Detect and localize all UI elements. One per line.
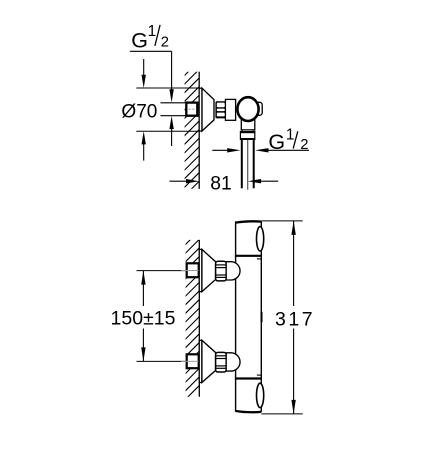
O70 extension line bottom bbox=[136, 130, 199, 132]
union thread bottom connection (front view) bbox=[216, 352, 227, 372]
top cap top edge bbox=[236, 221, 261, 222]
escutcheon cone bottom connection (front view) bbox=[202, 340, 216, 382]
O70 extension line top bbox=[136, 87, 199, 89]
wall hatching (front view) bbox=[178, 222, 208, 407]
outlet pipe down (top view) bbox=[241, 140, 243, 188]
svg-text:81: 81 bbox=[210, 173, 231, 194]
divider below top cap bbox=[235, 255, 262, 257]
threaded wall nipple (top view) bbox=[186, 103, 197, 116]
in-wall fitting square top (front view) bbox=[187, 263, 199, 277]
150 arrow down bbox=[141, 347, 145, 361]
O70 lower arrow (points up) bbox=[143, 143, 145, 161]
81 left arrow (points right at wall face) bbox=[170, 180, 187, 182]
150 dimension line lower part bbox=[142, 329, 144, 362]
wall face line (front view) bbox=[198, 240, 200, 397]
leader vertical for top G1/2 bbox=[171, 51, 173, 91]
centerline in top square bbox=[181, 270, 199, 272]
lower valve body below circle (top view) bbox=[241, 110, 255, 130]
317 arrow up bbox=[291, 221, 295, 235]
arrow down to pipe thread (top G1/2) bbox=[169, 89, 173, 102]
leader underline for right G1/2 with left arrow bbox=[261, 149, 309, 151]
thermostat bar column right edge bbox=[260, 221, 262, 411]
arrow up to pipe thread bottom (top G1/2) bbox=[169, 116, 173, 129]
wall face line (top view) bbox=[198, 72, 200, 189]
O70 upper arrow (points down) bbox=[143, 59, 145, 76]
valve circle (top view) bbox=[237, 97, 258, 121]
svg-text:2: 2 bbox=[161, 35, 169, 51]
bottom cap end ellipse bbox=[257, 383, 264, 407]
centerline in bottom square bbox=[181, 360, 199, 362]
step ring under body (top view) bbox=[242, 130, 253, 132]
tail below up-arrow (top G1/2) bbox=[171, 129, 173, 146]
svg-text:150±15: 150±15 bbox=[111, 308, 176, 330]
317 dimension line lower part bbox=[293, 329, 295, 414]
svg-text:G: G bbox=[131, 28, 148, 52]
outlet nut (top view) bbox=[240, 132, 254, 140]
nipple thread dashes bbox=[189, 108, 196, 110]
escutcheon cone (top view) bbox=[202, 88, 214, 131]
150 dimension extension line top / supply axis bbox=[137, 270, 188, 272]
150 dimension line upper part bbox=[142, 271, 144, 306]
escutcheon base flange (top view) bbox=[199, 88, 202, 131]
svg-text:317: 317 bbox=[275, 308, 313, 330]
150 dimension extension line bottom / supply axis bbox=[137, 360, 188, 362]
317 arrow down bbox=[291, 400, 295, 414]
connection nut bulge bottom (front view) bbox=[226, 353, 240, 371]
bottom cap bottom edge bbox=[236, 411, 261, 412]
escutcheon base flange top connection (front view) bbox=[199, 249, 202, 291]
union thread section (top view) bbox=[215, 101, 226, 118]
wall hatching (top view) bbox=[176, 54, 206, 204]
connection nut bulge top (front view) bbox=[226, 262, 240, 280]
step tick above bottom divider bbox=[257, 374, 262, 376]
handle knob on right of valve (top view) bbox=[258, 102, 263, 115]
escutcheon cone top connection (front view) bbox=[202, 249, 216, 291]
317 dimension line upper part bbox=[293, 221, 295, 306]
outlet pipe centerline (top view) bbox=[247, 140, 249, 190]
escutcheon base flange bottom connection (front view) bbox=[199, 340, 202, 382]
svg-text:Ø70: Ø70 bbox=[121, 101, 157, 122]
thermostat bar column left edge bbox=[235, 221, 237, 411]
supply pipe stub through wall (top view) bbox=[161, 103, 188, 116]
small protrusion on right edge bbox=[261, 312, 263, 322]
top cap end ellipse bbox=[257, 227, 264, 251]
dimension text G1/2 (top label) bbox=[131, 23, 169, 53]
union thread top connection (front view) bbox=[216, 261, 227, 281]
divider above bottom cap bbox=[235, 377, 262, 379]
opposing arrow left of pipe (right G1/2) bbox=[212, 149, 228, 151]
step tick below top divider bbox=[257, 258, 262, 260]
in-wall fitting square bottom (front view) bbox=[187, 354, 199, 368]
317 extension line top bbox=[262, 220, 303, 222]
leader underline for top G1/2 bbox=[130, 50, 172, 52]
317 extension line bottom bbox=[261, 413, 302, 415]
svg-text:1: 1 bbox=[286, 126, 295, 143]
dimension text G1/2 (right label, outlet) bbox=[268, 126, 308, 154]
valve body rectangle (top view) bbox=[225, 99, 235, 120]
150 arrow up bbox=[141, 271, 145, 285]
svg-text:1: 1 bbox=[148, 23, 157, 40]
81 right arrow (points left at pipe axis) bbox=[261, 180, 278, 182]
